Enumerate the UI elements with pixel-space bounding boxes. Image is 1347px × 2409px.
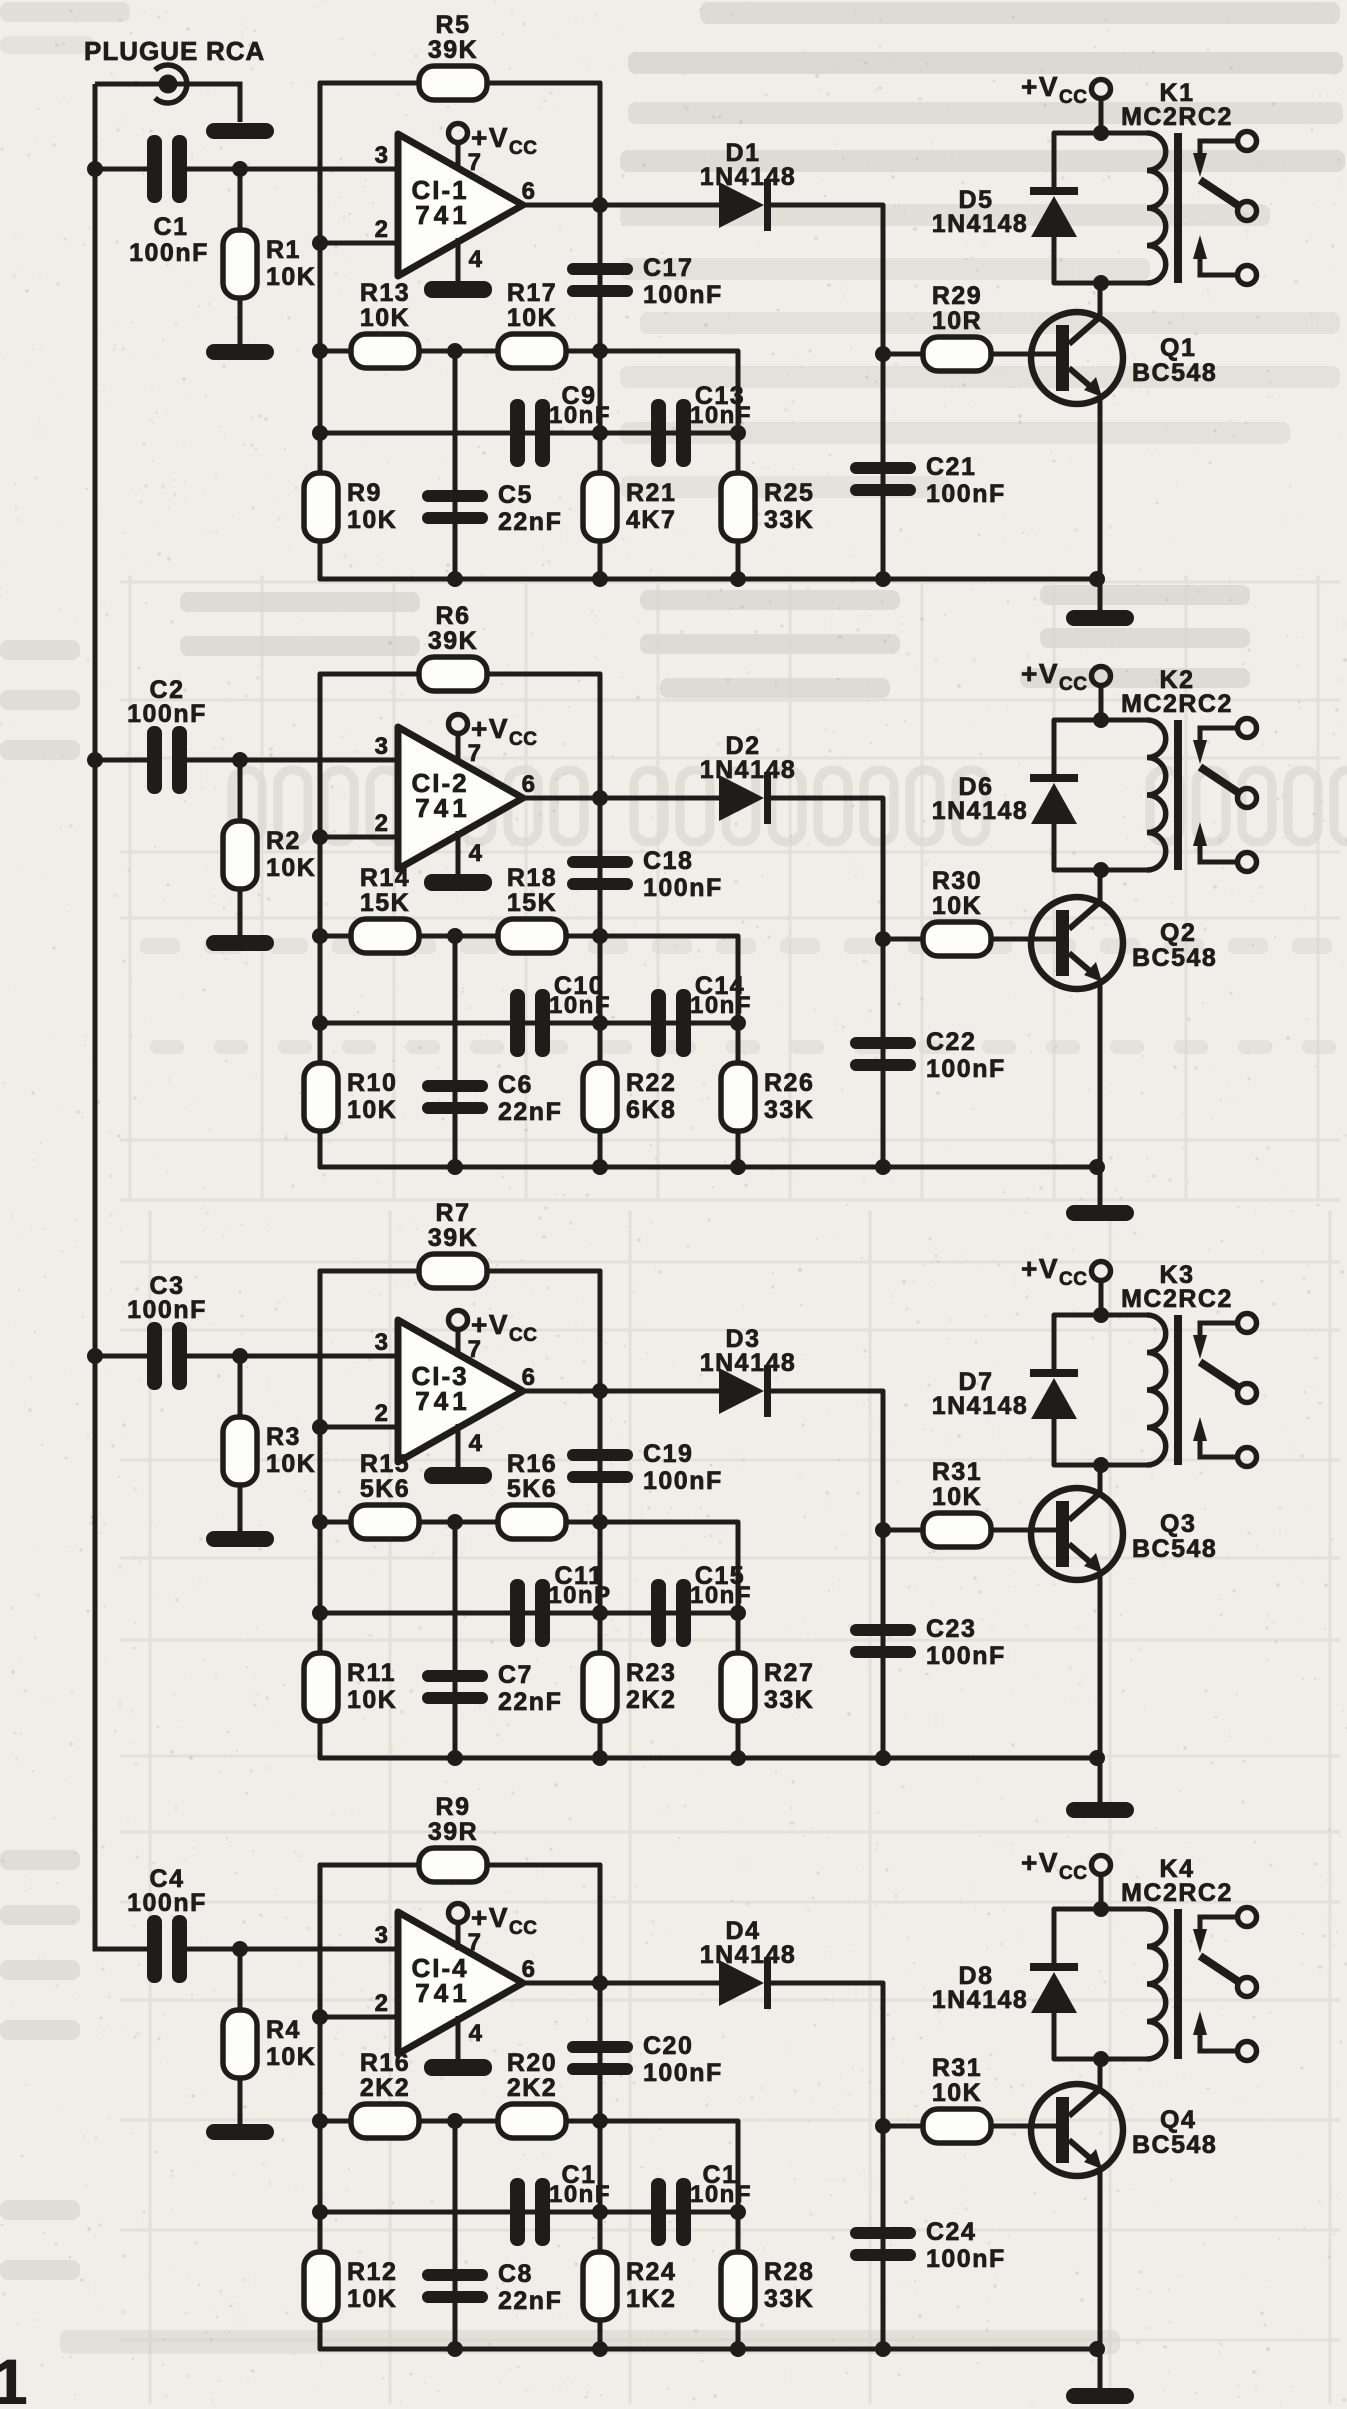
svg-text:C7: C7 [498, 1661, 533, 1689]
node [730, 425, 746, 441]
svg-text:+V: +V [1021, 658, 1059, 689]
wire [487, 672, 600, 677]
wire emitter [1098, 1573, 1103, 1758]
wire to base [991, 1528, 1056, 1533]
node relay - [1093, 275, 1109, 291]
svg-text:100nF: 100nF [926, 1055, 1006, 1083]
node [592, 1159, 608, 1175]
svg-text:100nF: 100nF [127, 700, 207, 728]
svg-text:RCA: RCA [206, 36, 265, 66]
svg-text:Q1: Q1 [1160, 334, 1196, 362]
node input [232, 1941, 248, 1957]
svg-text:1N4148: 1N4148 [932, 1392, 1029, 1420]
svg-text:R5: R5 [436, 11, 471, 39]
svg-text:6: 6 [522, 1364, 537, 1391]
capacitor C21 (100nF) [850, 453, 1006, 508]
svg-text:3: 3 [375, 142, 390, 169]
wire [320, 1863, 419, 1868]
wire feedback rail [318, 1865, 323, 2349]
relay K3 contacts [1193, 1314, 1257, 1467]
resistor R2 (10K) [223, 821, 316, 889]
wire output rail [598, 1865, 603, 2349]
capacitor C2 (100nF) [127, 676, 207, 794]
capacitor C11 (10nP) [510, 1562, 612, 1647]
svg-text:Q2: Q2 [1160, 919, 1196, 947]
capacitor C4 (100nF) [127, 1865, 207, 1983]
ground (RCA sleeve) [206, 123, 274, 139]
svg-text:100nF: 100nF [643, 281, 723, 309]
node [447, 2113, 463, 2129]
svg-text:33K: 33K [764, 506, 814, 534]
capacitor C13 (10nF) [651, 382, 752, 467]
wire to pin 2 [320, 241, 398, 246]
node [312, 2113, 328, 2129]
svg-text:1K2: 1K2 [626, 2285, 676, 2313]
svg-text:C1: C1 [154, 213, 189, 241]
wire to pin 2 [320, 835, 398, 840]
relay K4 (MC2RC2) coil [1054, 1855, 1233, 2059]
svg-text:1N4148: 1N4148 [700, 1349, 797, 1377]
node [875, 1750, 891, 1766]
svg-text:100nF: 100nF [643, 2059, 723, 2087]
resistor R26 (33K) [721, 1063, 814, 1131]
wire [238, 1485, 243, 1531]
svg-text:2: 2 [375, 810, 390, 837]
svg-text:R13: R13 [360, 279, 410, 307]
wire to pin 3 [187, 1947, 398, 1952]
connector PLUGUE RCA [84, 36, 265, 103]
svg-text:C8: C8 [498, 2260, 533, 2288]
svg-text:7: 7 [468, 740, 483, 767]
wire [487, 81, 600, 86]
svg-text:10nF: 10nF [549, 992, 611, 1019]
wire to pin 2 [320, 2015, 398, 2020]
svg-text:2: 2 [375, 1990, 390, 2017]
power +Vcc terminal [1021, 1847, 1111, 1884]
svg-text:R31: R31 [932, 2054, 982, 2082]
node [312, 1015, 328, 1031]
svg-text:39K: 39K [428, 1224, 478, 1252]
resistor R23 (2K2) [583, 1653, 676, 1721]
capacitor C1 (10nF) [651, 2161, 752, 2246]
svg-text:6: 6 [522, 178, 537, 205]
capacitor C7 (22nF) [422, 1661, 562, 1716]
svg-text:2K2: 2K2 [626, 1686, 676, 1714]
wire input stage 1 [95, 167, 147, 172]
op-amp CI-2 (741) [375, 727, 537, 869]
wire detector rail [771, 1983, 883, 2349]
node pin 2 [312, 1419, 328, 1435]
resistor R6 (39K) [419, 602, 487, 691]
resistor R3 (10K) [223, 1417, 316, 1485]
relay K3 (MC2RC2) coil [1054, 1261, 1233, 1465]
node [592, 2113, 608, 2129]
wire stage bottom rail [320, 577, 1100, 582]
svg-text:100nF: 100nF [127, 1296, 207, 1324]
svg-text:CC: CC [509, 138, 537, 159]
wire to pin 3 [187, 758, 398, 763]
svg-text:1N4148: 1N4148 [700, 756, 797, 784]
relay K1 contacts [1193, 132, 1257, 285]
transistor Q2 (BC548) [1031, 897, 1217, 989]
svg-text:10K: 10K [507, 304, 557, 332]
relay K1 (MC2RC2) coil [1054, 79, 1233, 283]
wire stage bottom rail [320, 1165, 1100, 1170]
svg-text:1N4148: 1N4148 [932, 1986, 1029, 2014]
wire filter line 2 [320, 431, 738, 436]
svg-text:5K6: 5K6 [360, 1475, 410, 1503]
svg-text:R3: R3 [266, 1423, 301, 1451]
svg-text:33K: 33K [764, 1096, 814, 1124]
ground [1066, 610, 1134, 626]
wire to pin 3 [187, 1354, 398, 1359]
svg-text:Q4: Q4 [1160, 2106, 1196, 2134]
svg-text:MC2RC2: MC2RC2 [1121, 103, 1233, 131]
svg-text:BC548: BC548 [1132, 1535, 1217, 1563]
node [592, 1605, 608, 1621]
node [312, 343, 328, 359]
node relay - [1093, 862, 1109, 878]
power +Vcc terminal [1021, 1253, 1111, 1290]
node relay + [1093, 712, 1109, 728]
node [875, 2341, 891, 2357]
ground [1066, 1205, 1134, 1221]
svg-text:100nF: 100nF [926, 480, 1006, 508]
wire [1098, 1758, 1103, 1804]
svg-text:39R: 39R [428, 1818, 478, 1846]
svg-text:10K: 10K [932, 2079, 982, 2107]
svg-text:BC548: BC548 [1132, 359, 1217, 387]
wire detector rail [771, 798, 883, 1167]
wire input stage 4 [95, 1947, 147, 1952]
svg-text:15K: 15K [360, 889, 410, 917]
node [312, 2204, 328, 2220]
svg-text:R4: R4 [266, 2016, 301, 2044]
capacitor C14 (10nF) [651, 972, 752, 1057]
svg-text:BC548: BC548 [1132, 944, 1217, 972]
svg-text:100nF: 100nF [643, 1467, 723, 1495]
node stage 1 tap [87, 161, 103, 177]
op-amp CI-4 (741) [375, 1912, 537, 2054]
svg-text:+V: +V [471, 122, 509, 153]
svg-text:10R: 10R [932, 307, 982, 335]
wire [487, 1863, 600, 1868]
resistor R13 (10K) [351, 279, 419, 368]
wire [453, 2121, 458, 2349]
svg-text:7: 7 [468, 1929, 483, 1956]
svg-text:R29: R29 [932, 282, 982, 310]
wire [1052, 133, 1057, 187]
svg-text:39K: 39K [428, 627, 478, 655]
svg-text:10K: 10K [932, 1483, 982, 1511]
node [447, 1514, 463, 1530]
wire to base [991, 352, 1056, 357]
node [875, 1159, 891, 1175]
svg-text:10K: 10K [266, 1450, 316, 1478]
resistor R5 (39K) [419, 11, 487, 100]
svg-text:R17: R17 [507, 279, 557, 307]
svg-text:100nF: 100nF [926, 2245, 1006, 2273]
node [592, 343, 608, 359]
wire emitter [1098, 397, 1103, 579]
wire [1052, 822, 1057, 870]
svg-text:R24: R24 [626, 2258, 676, 2286]
wire RCA to ground [95, 84, 240, 122]
svg-text:CC: CC [1059, 674, 1087, 695]
ground [206, 344, 274, 360]
node [592, 2204, 608, 2220]
node [447, 343, 463, 359]
transistor Q1 (BC548) [1031, 312, 1217, 404]
wire [1052, 1315, 1057, 1369]
svg-text:R6: R6 [436, 602, 471, 630]
relay K4 contacts [1193, 1908, 1257, 2061]
resistor R21 (4K7) [583, 473, 676, 541]
diode D1 (1N4148) [700, 139, 797, 231]
svg-text:33K: 33K [764, 2285, 814, 2313]
svg-text:7: 7 [468, 149, 483, 176]
node stage 2 tap [87, 752, 103, 768]
node relay - [1093, 2051, 1109, 2067]
resistor R4 (10K) [223, 2010, 316, 2078]
svg-text:22nF: 22nF [498, 1688, 562, 1716]
svg-text:R22: R22 [626, 1069, 676, 1097]
node output [592, 790, 608, 806]
svg-text:6: 6 [522, 771, 537, 798]
resistor R17 (10K) [498, 279, 566, 368]
svg-text:R15: R15 [360, 1450, 410, 1478]
svg-text:10K: 10K [347, 2285, 397, 2313]
node [730, 2341, 746, 2357]
wire [238, 889, 243, 935]
svg-text:10K: 10K [266, 2043, 316, 2071]
svg-text:741: 741 [415, 793, 470, 823]
wire detector rail [771, 205, 883, 579]
node [875, 1522, 891, 1538]
diode D8 (1N4148) [932, 1962, 1078, 2014]
node [592, 1015, 608, 1031]
svg-text:MC2RC2: MC2RC2 [1121, 1879, 1233, 1907]
wire output rail [598, 674, 603, 1167]
wire [453, 936, 458, 1167]
wire input stage 2 [95, 758, 147, 763]
node emitter [1089, 571, 1105, 587]
ground [206, 1531, 274, 1547]
wire output rail [598, 1271, 603, 1758]
svg-text:R23: R23 [626, 1659, 676, 1687]
node [592, 571, 608, 587]
svg-text:R9: R9 [436, 1793, 471, 1821]
wire output [523, 1389, 719, 1394]
resistor R31 (10K) [923, 2054, 991, 2143]
resistor R9 (39R) [419, 1793, 487, 1882]
svg-text:33K: 33K [764, 1686, 814, 1714]
svg-text:4: 4 [469, 2020, 484, 2047]
wire [487, 1269, 600, 1274]
node output [592, 1383, 608, 1399]
svg-text:3: 3 [375, 1922, 390, 1949]
capacitor C24 (100nF) [850, 2218, 1006, 2273]
svg-text:10nF: 10nF [690, 2181, 752, 2208]
svg-text:R1: R1 [266, 236, 301, 264]
svg-text:100nF: 100nF [127, 1889, 207, 1917]
svg-text:R20: R20 [507, 2049, 557, 2077]
wire input stage 3 [95, 1354, 147, 1359]
node [447, 1750, 463, 1766]
wire [1099, 1875, 1104, 1909]
wire [238, 169, 243, 232]
svg-text:C20: C20 [643, 2032, 693, 2060]
svg-text:C17: C17 [643, 254, 693, 282]
wire feedback rail [318, 674, 323, 1167]
svg-text:C18: C18 [643, 847, 693, 875]
svg-text:CC: CC [1059, 1269, 1087, 1290]
wire [1052, 1417, 1057, 1465]
wire [1099, 686, 1104, 720]
svg-text:R2: R2 [266, 827, 301, 855]
wire [320, 672, 419, 677]
transistor Q3 (BC548) [1031, 1488, 1217, 1580]
ground [206, 2124, 274, 2140]
resistor R15 (5K6) [351, 1450, 419, 1539]
svg-text:PLUGUE: PLUGUE [84, 36, 198, 66]
svg-text:22nF: 22nF [498, 508, 562, 536]
svg-text:1N4148: 1N4148 [700, 163, 797, 191]
svg-text:1N4148: 1N4148 [932, 210, 1029, 238]
node input [232, 1348, 248, 1364]
node stage 3 tap [87, 1348, 103, 1364]
wire [238, 298, 243, 344]
wire output [523, 796, 719, 801]
node output [592, 1975, 608, 1991]
svg-text:7: 7 [468, 1336, 483, 1363]
resistor R20 (2K2) [498, 2049, 566, 2138]
capacitor C1 (10nF) [510, 2161, 611, 2246]
wire [453, 1522, 458, 1758]
node [875, 346, 891, 362]
wire filter line 2 [320, 2210, 738, 2215]
resistor R1 (10K) [223, 230, 316, 298]
ground [206, 935, 274, 951]
relay K2 (MC2RC2) coil [1054, 666, 1233, 870]
svg-text:CC: CC [509, 1325, 537, 1346]
power +Vcc (pin 7 of CI-1) [449, 122, 538, 170]
ground [1066, 2388, 1134, 2404]
capacitor C10 (10nF) [510, 972, 611, 1057]
wire [238, 2078, 243, 2124]
wire [1052, 1909, 1057, 1963]
capacitor C9 (10nF) [510, 382, 611, 467]
svg-text:CC: CC [509, 1918, 537, 1939]
power +Vcc terminal [1021, 658, 1111, 695]
wire [883, 1528, 922, 1533]
svg-text:6K8: 6K8 [626, 1096, 676, 1124]
resistor R11 (10K) [304, 1653, 397, 1721]
svg-text:5K6: 5K6 [507, 1475, 557, 1503]
svg-text:22nF: 22nF [498, 2287, 562, 2315]
svg-text:2K2: 2K2 [360, 2074, 410, 2102]
svg-text:10K: 10K [266, 854, 316, 882]
resistor R30 (10K) [923, 867, 991, 956]
wire stage bottom rail [320, 1756, 1100, 1761]
svg-text:4: 4 [469, 840, 484, 867]
svg-text:1: 1 [0, 2346, 28, 2404]
svg-text:100nF: 100nF [129, 239, 209, 267]
wire [1052, 2011, 1057, 2059]
svg-text:MC2RC2: MC2RC2 [1121, 1285, 1233, 1313]
svg-text:4: 4 [469, 1430, 484, 1457]
svg-text:R31: R31 [932, 1458, 982, 1486]
wire collector [1098, 1465, 1103, 1493]
capacitor C19 (100nF) [567, 1440, 723, 1495]
ground (pin 4 of CI-2) [456, 831, 461, 874]
ground (pin 4 of CI-1) [456, 238, 461, 281]
svg-text:R11: R11 [347, 1659, 396, 1687]
svg-text:10nF: 10nF [549, 2181, 611, 2208]
resistor R22 (6K8) [583, 1063, 676, 1131]
wire [238, 1949, 243, 2012]
svg-text:R27: R27 [764, 1659, 814, 1687]
svg-text:C24: C24 [926, 2218, 976, 2246]
diode D3 (1N4148) [700, 1325, 797, 1417]
svg-text:C5: C5 [498, 481, 533, 509]
svg-text:CC: CC [1059, 1863, 1087, 1884]
wire output [523, 1981, 719, 1986]
svg-text:R25: R25 [764, 479, 814, 507]
wire [1099, 99, 1104, 133]
ground (pin 4 of CI-3) [456, 1424, 461, 1467]
wire filter line 2 [320, 1021, 738, 1026]
svg-text:741: 741 [415, 1978, 470, 2008]
node [730, 1605, 746, 1621]
capacitor C3 (100nF) [127, 1272, 207, 1390]
svg-text:39K: 39K [428, 36, 478, 64]
node [730, 2204, 746, 2220]
svg-text:10nF: 10nF [690, 992, 752, 1019]
node [730, 571, 746, 587]
node [312, 928, 328, 944]
wire feedback rail [318, 83, 323, 579]
node [875, 2118, 891, 2134]
node [312, 1605, 328, 1621]
wire [1098, 1167, 1103, 1207]
wire stage bottom rail [320, 2347, 1100, 2352]
wire filter line 1 [320, 2121, 738, 2349]
node output [592, 197, 608, 213]
wire [1098, 2349, 1103, 2390]
svg-text:R14: R14 [360, 864, 410, 892]
svg-text:100nF: 100nF [643, 874, 723, 902]
node relay + [1093, 1307, 1109, 1323]
wire [1052, 235, 1057, 283]
ground (pin 4 of CI-4) [456, 2016, 461, 2059]
wire [238, 1356, 243, 1419]
svg-text:10nP: 10nP [548, 1582, 611, 1609]
power +Vcc terminal [1021, 71, 1111, 108]
svg-text:R7: R7 [436, 1199, 471, 1227]
svg-text:R26: R26 [764, 1069, 814, 1097]
node input [232, 161, 248, 177]
wire [1099, 1281, 1104, 1315]
svg-text:3: 3 [375, 1329, 390, 1356]
svg-text:741: 741 [415, 200, 470, 230]
svg-text:+V: +V [1021, 1253, 1059, 1284]
svg-text:2: 2 [375, 1400, 390, 1427]
wire output [523, 203, 719, 208]
wire collector [1098, 283, 1103, 317]
wire emitter [1098, 2169, 1103, 2349]
op-amp CI-3 (741) [375, 1320, 537, 1462]
